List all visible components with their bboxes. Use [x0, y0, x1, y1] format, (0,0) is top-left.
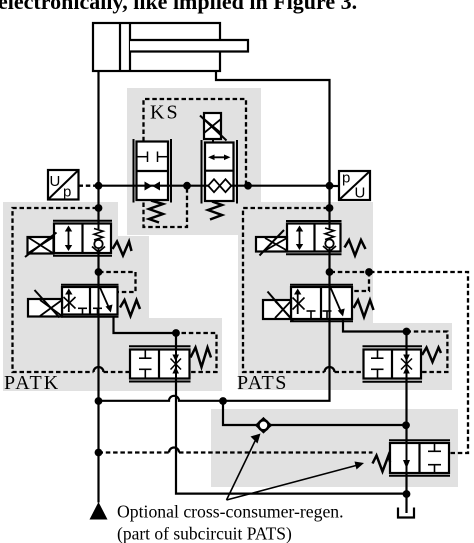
pilot line sensor U/p (dashed): [79, 185, 99, 187]
svg-text:electronically, like implied i: electronically, like implied in Figure 3…: [0, 0, 357, 14]
svg-text:U: U: [355, 185, 366, 202]
valve PATS-V1 (2/2 prop. valve with check): [286, 221, 342, 254]
pilot line valve PATS-V2 (dashed): [331, 272, 370, 291]
spring PATK-V1: [113, 242, 132, 256]
tank symbol: [398, 508, 414, 518]
PATK dashed border: [13, 208, 217, 372]
valve PATK-V3 (compensator): [129, 346, 191, 381]
valve PATS-V3 (compensator): [363, 346, 423, 381]
svg-text:PATK: PATK: [4, 372, 60, 394]
spring PATS-V1: [345, 240, 366, 256]
check valve (cross-consumer regen): [256, 418, 273, 432]
subcircuit KS shaded region: [127, 88, 261, 235]
svg-text:KS: KS: [150, 102, 180, 124]
solenoid PATS-V2: [263, 292, 293, 322]
wire KS flow line: [99, 185, 330, 187]
caption line 2: [117, 524, 292, 543]
annotation arrow to check valve: [227, 434, 261, 501]
pilot line valve PATK-V2 (dashed): [99, 272, 136, 292]
spring KS-V2: [208, 202, 222, 220]
cross-consumer-regen shaded region: [211, 409, 458, 487]
svg-text:(part of subcircuit PATS): (part of subcircuit PATS): [117, 524, 292, 543]
wire cylinder left port to main left line: [97, 71, 99, 503]
valve PATK-V1 (2/2 prop. valve with check): [53, 221, 112, 256]
cross-consumer regen pilot loop (dashed): [370, 272, 468, 453]
wire PATK-V2 outlet to PATK-V3 and bottom return: [114, 317, 407, 494]
label KS: [150, 102, 180, 124]
svg-text:PATS: PATS: [237, 372, 288, 394]
svg-text:Optional cross-consumer-regen.: Optional cross-consumer-regen.: [117, 502, 344, 522]
running text (cut at top): [0, 0, 357, 14]
pilot line to regen valve (dashed, with hop): [99, 448, 373, 453]
pressure source triangle: [90, 502, 108, 520]
PATS dashed border: [243, 208, 447, 372]
annotation arrow to regen spring: [227, 462, 365, 501]
spring PATK-V2: [120, 300, 140, 316]
valve PATS-V2 (2/2 prop. throttle): [290, 285, 353, 322]
sensor p/U: [339, 170, 370, 202]
valve REGEN (cross-consumer regeneration valve): [389, 440, 450, 475]
solenoid PATS-V1: [256, 230, 287, 256]
valve KS-V1 (shut-off poppet valve): [134, 139, 172, 203]
wire sensor p/U stub: [330, 185, 340, 187]
spring PATS-V3: [422, 348, 441, 363]
KS dashed border: [144, 99, 247, 227]
junction node dots: [95, 182, 411, 498]
svg-text:p: p: [342, 170, 350, 187]
spring PATK-V3: [191, 348, 212, 368]
subcircuit PATS shaded region: [238, 202, 452, 390]
svg-text:p: p: [63, 184, 71, 201]
subcircuit PATK shaded region: [3, 202, 222, 391]
label PATK: [4, 372, 60, 394]
sensor U/p: [48, 170, 79, 201]
wire cylinder right port, right main line, bottom return: [99, 71, 330, 401]
solenoid PATK-V2: [28, 290, 62, 318]
svg-text:U: U: [50, 173, 61, 190]
spring KS-V1: [149, 201, 163, 223]
solenoid KS-V2: [200, 113, 227, 143]
caption line 1: [117, 502, 344, 522]
cylinder: [93, 23, 248, 71]
valve PATK-V2 (2/2 prop. throttle): [61, 285, 119, 317]
label PATS: [237, 372, 288, 394]
solenoid PATK-V1: [25, 233, 57, 258]
spring REGEN (left side): [373, 456, 391, 472]
spring PATS-V2: [354, 300, 374, 317]
wire regen branch with check valve: [223, 401, 407, 425]
valve KS-V2 (pressure compensator): [202, 140, 238, 204]
wire PATS-V2 outlet to PATS-V3 and down to tank: [343, 319, 407, 513]
